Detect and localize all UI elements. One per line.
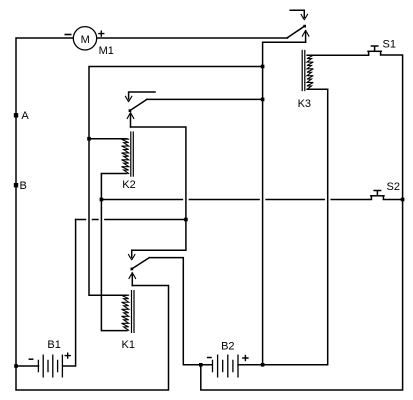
wire: S1 right terminal down right rail, bottom-right run, up to B2 minus branch [201,55,403,390]
wire: B1 minus to left rail [16,365,38,367]
svg-text:S1: S1 [383,39,396,51]
svg-text:M: M [81,34,90,46]
junction: B2 plus wire with center bus [261,363,265,367]
wire: S2 row from K1/K2 coil bottom net (gaps at bus crossings) [101,199,371,201]
B1 minus sign [29,358,32,360]
junction: middle rail with B1 plus rail [184,218,188,222]
B2 minus sign [208,357,211,359]
node B [14,183,18,187]
junction: B2 minus wire with bottom-right run [199,363,203,367]
relay contact K3 (SPDT, NC stub top, blade to motor) [287,10,309,42]
B1 plus sign [65,353,70,358]
wire: top rail from center bus, down left inner rail, to K1 coil top [89,67,263,296]
B2 plus sign [243,356,248,361]
svg-text:A: A [21,110,29,122]
svg-text:B: B [20,180,27,192]
relay coil K3 [302,51,313,91]
svg-text:K2: K2 [122,179,135,191]
wire: motor positive to K3 common blade [97,37,288,39]
switch S2 (push button) [371,191,384,200]
svg-text:B2: B2 [221,340,234,352]
wire: K2 common blade to center bus [147,98,263,100]
wire: K2 NO down middle rail to K1 NC [131,127,186,250]
junction: coil-bottom rail with S2 wire [100,198,104,202]
motor M1 [73,27,96,50]
relay coil K1 [122,291,135,333]
wire: K1 common blade down to B2 minus [149,258,212,365]
motor plus sign [99,31,104,36]
svg-text:S2: S2 [387,181,400,193]
svg-text:K1: K1 [122,339,135,351]
junction: S2 wire with right rail [401,198,405,202]
wire: branch to K2 coil top [89,138,127,140]
junction: B1 minus wire with left rail [14,364,18,368]
wire: B2 plus to center bus and up right-middle rail to K3 coil bottom [238,89,328,365]
relay coil K2 [122,132,134,176]
node A [14,113,18,117]
junction: center bus with K2 common wire [261,98,265,102]
junction: left inner rail with K2 coil top [87,137,91,141]
relay contact K1 (SPDT) [129,250,150,285]
wire: K2 coil bottom down to K1 coil bottom [101,174,127,331]
battery B1 [38,355,62,377]
svg-text:K3: K3 [298,98,311,110]
wire: S2 right terminal to right rail [383,199,402,201]
wire: B1 plus rail (gaps at rail crossings) [76,219,186,221]
wire: down to B1 plus terminal [63,220,76,367]
wire: motor negative to left rail, bottom-left run, up to K1 NO [16,38,169,390]
wire: K3 coil top to S1 left terminal [307,54,368,56]
wire: K3 NO down the center bus to B2 plus [263,42,306,365]
motor minus sign [65,34,70,36]
battery B2 [213,355,239,377]
svg-text:B1: B1 [47,339,60,351]
relay contact K2 (SPDT, NC stub right) [125,92,155,127]
svg-text:M1: M1 [99,45,114,57]
junction: center bus with top rail [261,65,265,69]
switch S1 (push button) [368,46,381,55]
